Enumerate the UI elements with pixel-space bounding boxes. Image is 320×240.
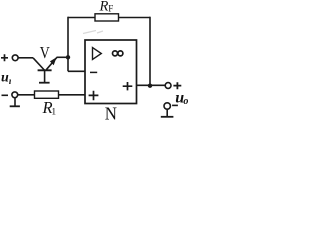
svg-text:V: V xyxy=(40,43,51,62)
svg-text:N: N xyxy=(105,103,118,121)
svg-text:1: 1 xyxy=(51,108,56,118)
svg-text:F: F xyxy=(108,4,113,14)
svg-text:o: o xyxy=(183,96,188,107)
svg-text:u: u xyxy=(1,71,9,86)
svg-text:R: R xyxy=(99,0,109,15)
